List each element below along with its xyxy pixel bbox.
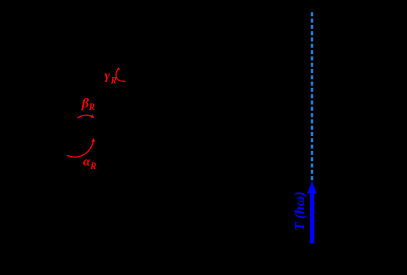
dashed blue line (z axis extension) (311, 12, 313, 182)
svg-text:R: R (88, 102, 95, 112)
label alpha_R (83, 154, 96, 172)
arc arrow for gamma_R (116, 69, 126, 81)
arrowhead alpha (91, 138, 95, 142)
arrowhead gamma (117, 67, 120, 70)
arc arrow for beta_R (78, 115, 93, 118)
svg-text:R: R (89, 161, 96, 171)
blue arrow head (307, 181, 316, 193)
arrowhead beta (91, 114, 95, 118)
svg-text:T (ħω): T (ħω) (293, 192, 308, 231)
blue arrow shaft (310, 192, 314, 243)
arc arrow for alpha_R (67, 141, 93, 157)
label beta_R (81, 96, 95, 112)
label gamma_R (105, 68, 117, 86)
svg-text:γ: γ (105, 68, 111, 83)
